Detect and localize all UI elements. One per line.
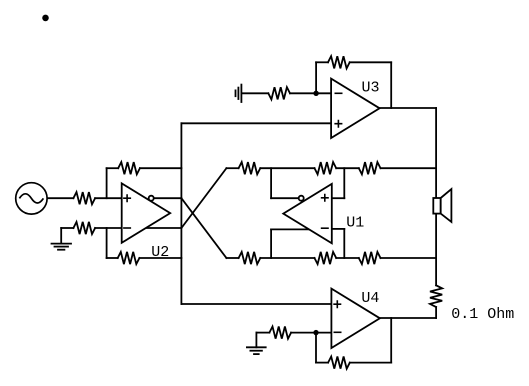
svg-text:0.1 Ohm: 0.1 Ohm [451, 306, 514, 323]
svg-text:U4: U4 [361, 290, 379, 307]
svg-text:U3: U3 [362, 80, 380, 97]
svg-text:U1: U1 [346, 215, 364, 232]
svg-text:U2: U2 [151, 244, 169, 261]
